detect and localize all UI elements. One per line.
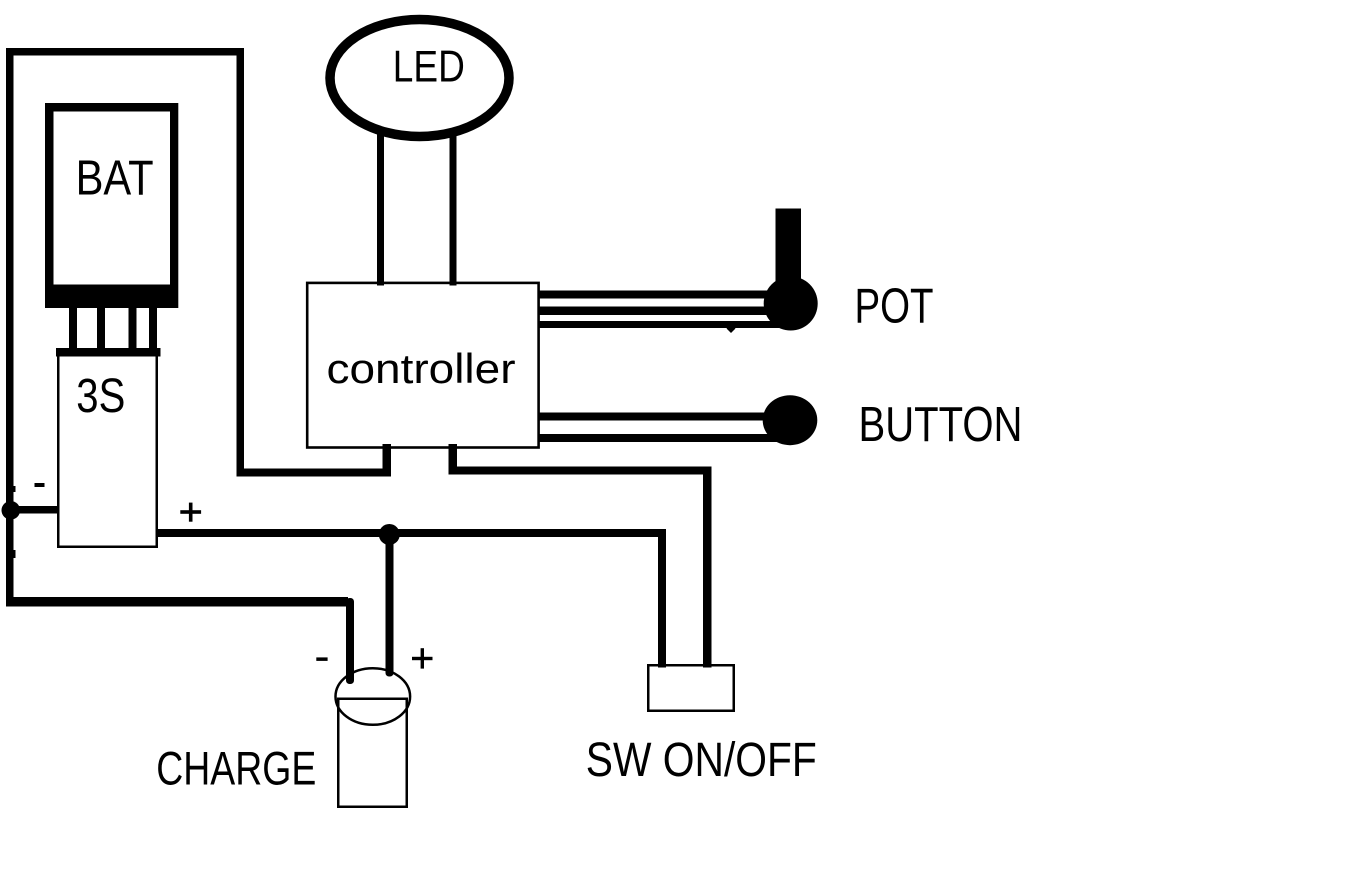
svg-text:SW ON/OFF: SW ON/OFF	[586, 734, 817, 787]
svg-text:LED: LED	[393, 42, 465, 91]
svg-text:POT: POT	[855, 279, 934, 334]
svg-text:3S: 3S	[76, 369, 125, 423]
svg-text:BUTTON: BUTTON	[859, 397, 1023, 452]
svg-text:CHARGE: CHARGE	[156, 742, 316, 795]
svg-text:controller: controller	[327, 345, 516, 392]
svg-text:BAT: BAT	[76, 151, 154, 205]
